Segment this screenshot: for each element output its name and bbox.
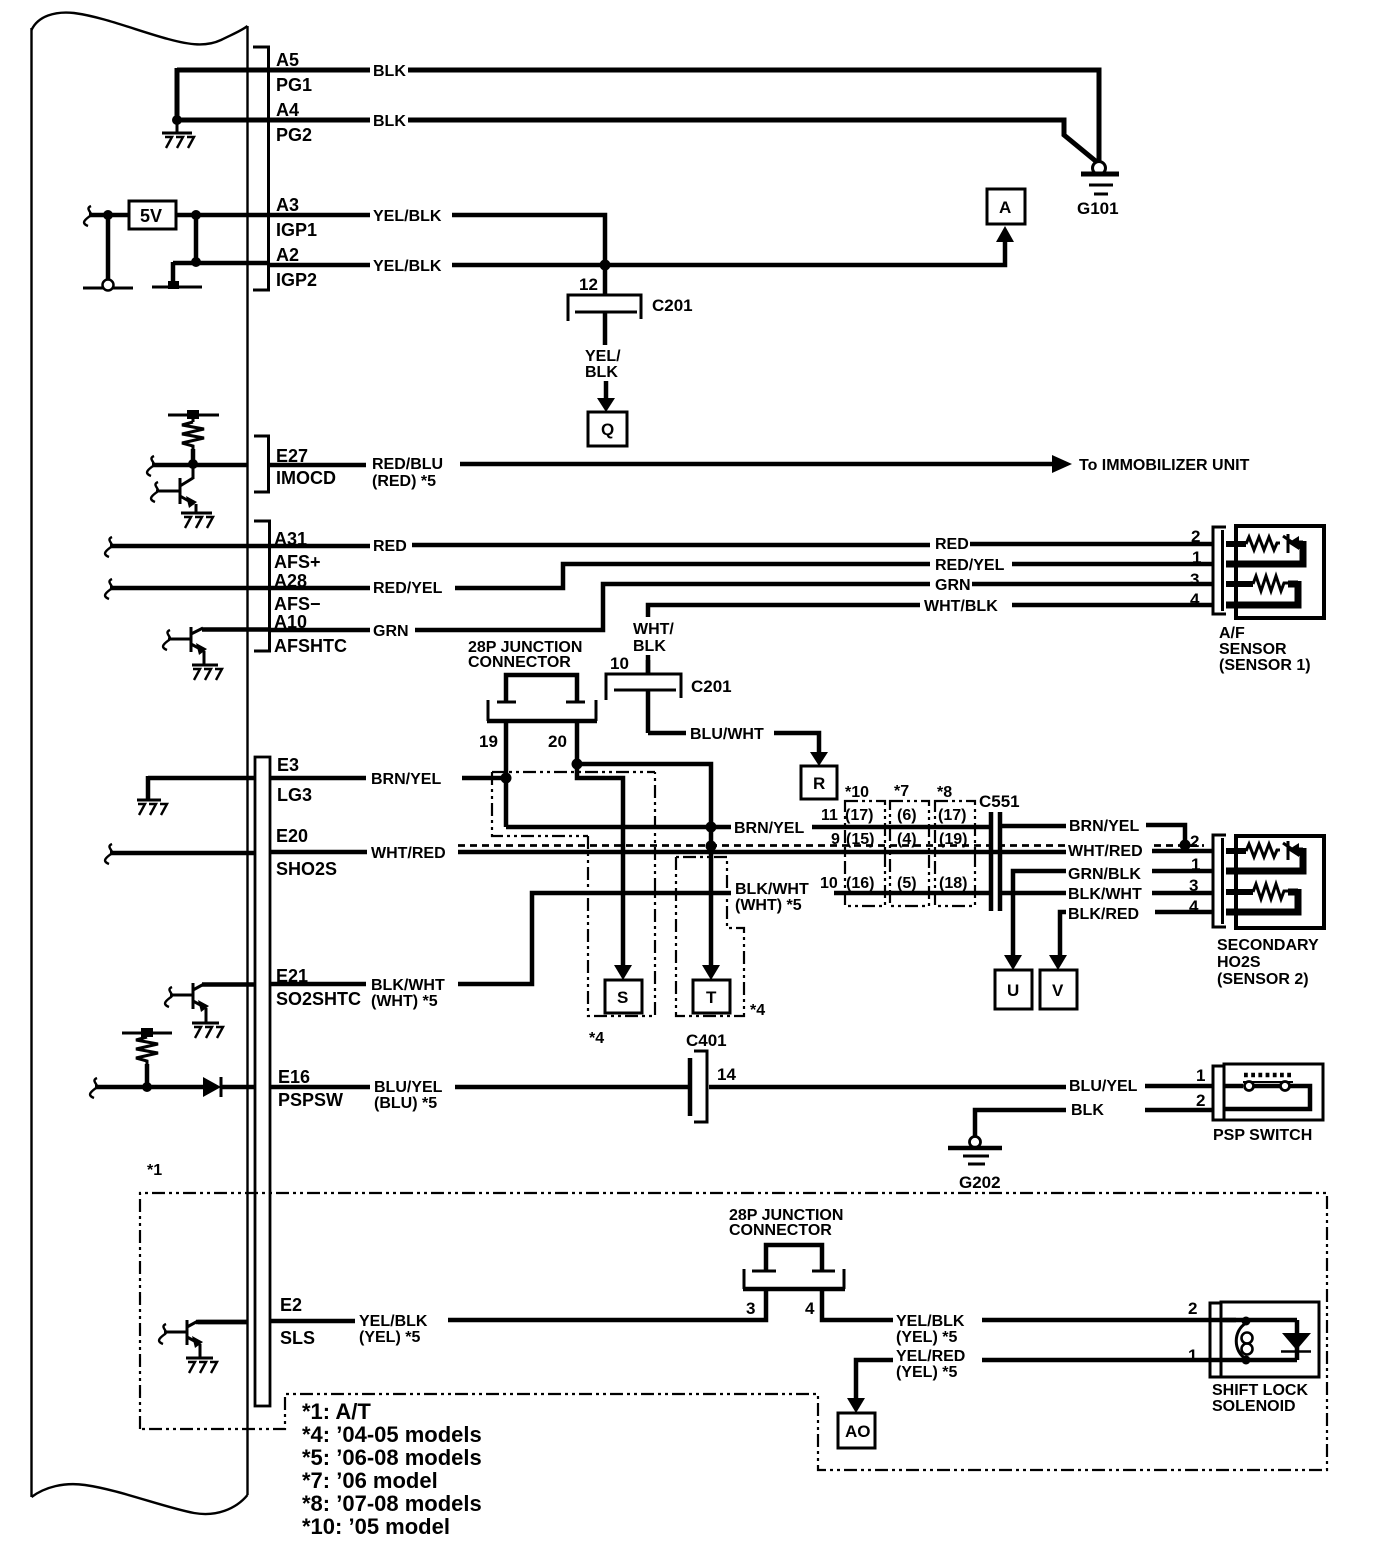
destination box U	[995, 970, 1032, 1009]
variant dash-dot box col *8	[935, 801, 975, 906]
component label SHIFT LOCK SOLENOID	[1212, 1382, 1308, 1415]
wire label YEL/BLK A2	[373, 258, 442, 275]
wire label BLK/WHT right	[1068, 886, 1142, 903]
destination box A	[987, 189, 1025, 224]
pin 10 label C201	[610, 654, 629, 673]
svg-text:LG3: LG3	[277, 785, 312, 805]
svg-text:IGP1: IGP1	[276, 220, 317, 240]
svg-text:20: 20	[548, 732, 567, 751]
svg-text:IGP2: IGP2	[276, 270, 317, 290]
ECM connector bracket A31-A10	[254, 521, 270, 651]
pin 2 label HO2S	[1190, 832, 1199, 851]
wire E2 YEL/BLK	[198, 1291, 766, 1322]
node BRN/YEL T junction	[706, 822, 717, 833]
ground G202	[948, 1137, 1002, 1193]
wire A5 BLK to G101	[268, 70, 1099, 162]
connector bracket solenoid	[1210, 1303, 1221, 1377]
svg-text:CONNECTOR: CONNECTOR	[468, 654, 571, 671]
variant pin (19) row2	[939, 831, 967, 848]
svg-text:YEL/: YEL/	[585, 348, 621, 365]
component label PSP SWITCH	[1213, 1127, 1312, 1144]
svg-text:10: 10	[610, 654, 629, 673]
HO2S sensor cell return wire	[1226, 868, 1307, 875]
wire A5 internal ground branch	[177, 68, 268, 120]
terminal label SLS	[280, 1328, 315, 1348]
wire GRN/BLK to HO2S	[1013, 871, 1213, 955]
HO2S sensor box	[1236, 836, 1324, 928]
pin 2 label A/F	[1191, 527, 1200, 546]
torn page right edge	[246, 26, 248, 1495]
connector label C401	[686, 1031, 727, 1050]
wire label BRN/YEL mid	[734, 820, 804, 837]
svg-text:GRN/BLK: GRN/BLK	[1068, 866, 1141, 883]
solenoid coil	[1223, 1317, 1297, 1365]
terminal label AFSHTC	[274, 636, 347, 656]
svg-text:*10: *10	[845, 784, 869, 801]
ground G101	[1077, 162, 1119, 219]
terminal label A2	[276, 245, 299, 265]
transistor Q1 IMOCD	[156, 464, 213, 528]
wire label GRN left	[373, 623, 409, 640]
PSP switch contacts	[1224, 1075, 1310, 1109]
destination box Q	[588, 412, 627, 446]
component label A/F SENSOR (SENSOR 1)	[1219, 625, 1311, 674]
svg-text:(19): (19)	[939, 831, 967, 848]
wire label WHT/RED E20	[371, 845, 446, 862]
HO2S heater element	[1226, 884, 1298, 909]
footnote *8 07-08 models	[302, 1491, 482, 1516]
variant pin (4) row2	[897, 831, 917, 848]
terminal label E3	[277, 755, 299, 775]
svg-text:(5): (5)	[897, 875, 917, 892]
torn page bottom edge	[32, 1484, 248, 1514]
connector C201 (A/F heater)	[606, 660, 681, 733]
wire pin20 to T drop	[577, 764, 711, 846]
wire A3 to A2 branch	[194, 215, 199, 262]
wire A4 internal	[177, 118, 268, 123]
pin 9 label	[831, 831, 840, 848]
svg-text:*1: *1	[147, 1162, 162, 1179]
variant dash-dot box A/T region	[140, 1193, 1327, 1470]
wire A4 BLK to G101	[268, 120, 1098, 163]
wire A2 internal	[173, 261, 268, 266]
A/F sensor cell return wire	[1226, 561, 1307, 568]
wire 5V input ground drop	[106, 215, 111, 284]
svg-text:9: 9	[831, 831, 840, 848]
wire A2 YEL/BLK to box A	[268, 242, 1005, 265]
pin 2 label solenoid	[1188, 1299, 1197, 1318]
svg-text:*8: ’07-08 models: *8: ’07-08 models	[302, 1491, 482, 1516]
torn page top edge	[32, 13, 248, 45]
pin 3 label junction	[746, 1299, 755, 1318]
terminal label PG2	[276, 125, 312, 145]
wire label RED/BLU	[372, 456, 443, 473]
svg-text:BLK: BLK	[585, 364, 618, 381]
wire break squiggle IMOCD row	[147, 456, 154, 476]
svg-text:(17): (17)	[938, 807, 966, 824]
A/F heater return wire	[1226, 602, 1302, 609]
wire break squiggle Q3 base	[165, 987, 172, 1007]
ECM connector bracket A5-A2	[253, 47, 269, 290]
svg-text:2: 2	[1188, 1299, 1197, 1318]
resistor R PSPSW pull-up	[122, 1028, 172, 1066]
footnote *5 06-08 models	[302, 1445, 482, 1470]
wire IMOCD pull-up drop	[191, 449, 196, 464]
variant pin (6) row1	[897, 807, 917, 824]
svg-text:C401: C401	[686, 1031, 727, 1050]
wire label BLK/WHT E21	[371, 977, 445, 994]
terminal label LG3	[277, 785, 312, 805]
note To IMMOBILIZER UNIT	[1079, 457, 1250, 474]
variant pin (16) row3	[846, 875, 874, 892]
A/F sensor cell element	[1226, 534, 1305, 561]
wire PSPSW pull-up drop	[145, 1064, 150, 1087]
wire break squiggle AFS+ row	[105, 537, 112, 557]
terminal label PG1	[276, 75, 312, 95]
svg-text:C201: C201	[652, 296, 693, 315]
wire BLK to ground	[975, 1110, 1213, 1137]
connector bracket PSP switch	[1213, 1066, 1224, 1120]
svg-text:(YEL) *5: (YEL) *5	[896, 1329, 957, 1346]
svg-text:2: 2	[1191, 527, 1200, 546]
wire label (YEL) *5 yelred	[896, 1364, 957, 1381]
torn page left edge	[30, 28, 32, 1497]
destination box AO	[838, 1413, 875, 1448]
svg-text:A3: A3	[276, 195, 299, 215]
svg-text:HO2S: HO2S	[1217, 954, 1261, 971]
svg-text:YEL/RED: YEL/RED	[896, 1348, 965, 1365]
arrow into box A	[996, 226, 1014, 242]
wire label BLU/WHT	[690, 726, 764, 743]
variant header *10	[845, 784, 869, 801]
HO2S sensor cell element	[1226, 841, 1305, 868]
svg-text:5V: 5V	[140, 206, 162, 226]
connector C401	[690, 1051, 707, 1122]
svg-text:PG2: PG2	[276, 125, 312, 145]
svg-text:BLK/WHT: BLK/WHT	[735, 881, 809, 898]
node IMOCD junction	[188, 459, 198, 469]
component label 28P JUNCTION CONNECTOR lower	[729, 1207, 843, 1239]
pin 1 label HO2S	[1191, 855, 1200, 874]
wire break squiggle PSPSW row	[90, 1078, 97, 1098]
wire label YEL/BLK E2	[359, 1313, 428, 1330]
svg-text:BLK: BLK	[633, 638, 666, 655]
svg-text:WHT/RED: WHT/RED	[1068, 843, 1143, 860]
variant pin (17)b row1	[938, 807, 966, 824]
svg-text:AFSHTC: AFSHTC	[274, 636, 347, 656]
svg-text:*10: ’05 model: *10: ’05 model	[302, 1514, 450, 1539]
arrow into box U	[1004, 955, 1022, 970]
terminal label A31	[274, 529, 307, 549]
node C201 branch junction	[600, 260, 611, 271]
svg-text:BRN/YEL: BRN/YEL	[734, 820, 804, 837]
svg-text:BRN/YEL: BRN/YEL	[1069, 818, 1139, 835]
svg-text:A4: A4	[276, 100, 299, 120]
svg-text:3: 3	[1190, 570, 1199, 589]
svg-text:S: S	[617, 988, 628, 1007]
pin 3 label HO2S	[1189, 876, 1198, 895]
svg-text:PG1: PG1	[276, 75, 312, 95]
pin 1 label A/F	[1192, 548, 1201, 567]
svg-text:BLK: BLK	[373, 113, 406, 130]
variant pin (5) row3	[897, 875, 917, 892]
wire pin20 to S drop	[577, 764, 623, 965]
svg-text:GRN: GRN	[935, 577, 971, 594]
footnote *7 06 model	[302, 1468, 438, 1493]
svg-text:A5: A5	[276, 50, 299, 70]
pin 10 label	[820, 875, 838, 892]
variant dash-dot box col *10	[845, 801, 885, 906]
pin 11 label	[821, 807, 838, 824]
svg-text:R: R	[813, 774, 825, 793]
terminal label E16	[278, 1067, 310, 1087]
terminal label IGP1	[276, 220, 317, 240]
wire label (WHT) *5 mid	[735, 897, 802, 914]
svg-text:(17): (17)	[845, 807, 873, 824]
wire AFS- internal	[110, 586, 268, 591]
wire AFS+ RED	[269, 544, 1213, 546]
wire label (RED) *5	[372, 473, 436, 490]
connector bracket HO2S	[1213, 835, 1226, 927]
svg-text:WHT/: WHT/	[633, 621, 674, 638]
svg-text:1: 1	[1188, 1346, 1197, 1365]
connector label C201 second	[691, 677, 732, 696]
svg-text:2: 2	[1196, 1091, 1205, 1110]
svg-text:WHT/RED: WHT/RED	[371, 845, 446, 862]
svg-text:A2: A2	[276, 245, 299, 265]
terminal label E21	[276, 966, 308, 986]
svg-text:(YEL) *5: (YEL) *5	[359, 1329, 420, 1346]
destination box T	[693, 980, 730, 1013]
variant dash-dot path E3 upper	[492, 772, 655, 836]
wire label BLK/RED	[1068, 906, 1139, 923]
svg-text:1: 1	[1196, 1066, 1205, 1085]
svg-text:BLK: BLK	[1071, 1102, 1104, 1119]
node A3 branch junction	[191, 210, 201, 220]
wire label GRN right	[935, 577, 971, 594]
svg-text:(BLU) *5: (BLU) *5	[374, 1095, 437, 1112]
terminal label E27	[276, 446, 308, 466]
svg-text:(4): (4)	[897, 831, 917, 848]
svg-text:RED: RED	[935, 536, 969, 553]
svg-text:12: 12	[579, 275, 598, 294]
wire IMOCD internal	[152, 463, 247, 468]
wire A3 YEL/BLK	[268, 215, 605, 265]
connector label C551	[979, 792, 1020, 811]
ground solid below A2	[152, 262, 202, 289]
terminal label E2	[280, 1295, 302, 1315]
HO2S heater return wire	[1226, 909, 1302, 916]
svg-text:(16): (16)	[846, 875, 874, 892]
wire label RED left	[373, 538, 407, 555]
variant pin (18) row3	[939, 875, 967, 892]
wire label BRN/YEL E3	[371, 771, 441, 788]
pin 1 label PSP	[1196, 1066, 1205, 1085]
wire BLK/WHT to C551	[834, 891, 989, 896]
svg-text:RED/YEL: RED/YEL	[935, 557, 1005, 574]
pin 12 label C201	[579, 275, 598, 294]
pin 19 label	[479, 732, 498, 751]
variant label *1	[147, 1162, 162, 1179]
wire WHT/RED to HO2S	[1152, 849, 1213, 854]
wire BLU/WHT to box R	[648, 733, 819, 752]
arrow into box Q	[597, 381, 615, 412]
wire label GRN/BLK	[1068, 866, 1141, 883]
wire AFS WHT/BLK	[648, 605, 1213, 674]
svg-text:SLS: SLS	[280, 1328, 315, 1348]
wire label WHT/BLK	[924, 598, 998, 615]
wire label BLK A4	[373, 113, 406, 130]
svg-text:PSPSW: PSPSW	[278, 1090, 343, 1110]
wire T drop lower	[709, 846, 714, 965]
svg-text:(WHT) *5: (WHT) *5	[371, 993, 438, 1010]
solenoid diode	[1281, 1320, 1311, 1360]
svg-text:BLU/YEL: BLU/YEL	[1069, 1078, 1138, 1095]
wire pin 20 drop	[575, 723, 580, 764]
wire BRN/YEL to HO2S	[1000, 825, 1185, 843]
wire label (BLU) *5	[374, 1095, 437, 1112]
svg-text:To IMMOBILIZER UNIT: To IMMOBILIZER UNIT	[1079, 457, 1250, 474]
svg-text:RED/YEL: RED/YEL	[373, 580, 443, 597]
wire label BLU/YEL right	[1069, 1078, 1138, 1095]
footnote *1 A/T	[302, 1399, 371, 1424]
variant pin (17) row1	[845, 807, 873, 824]
svg-text:A: A	[999, 198, 1011, 217]
arrow to immobilizer unit	[1052, 455, 1072, 473]
ground body below 5V input	[83, 280, 133, 291]
node A4 junction	[172, 115, 182, 125]
svg-text:(SENSOR 1): (SENSOR 1)	[1219, 657, 1311, 674]
svg-text:YEL/BLK: YEL/BLK	[896, 1313, 965, 1330]
destination box R	[801, 766, 837, 799]
connector C201 (IGP2)	[568, 265, 641, 345]
wire BLK/WHT to HO2S	[1000, 891, 1213, 896]
arrow into box AO	[847, 1398, 865, 1413]
svg-text:IMOCD: IMOCD	[276, 468, 336, 488]
terminal label PSPSW	[278, 1090, 343, 1110]
svg-text:*7: *7	[894, 783, 909, 800]
svg-text:*4: ’04-05 models: *4: ’04-05 models	[302, 1422, 482, 1447]
wire E3 BRN/YEL	[270, 776, 506, 781]
arrow into box V	[1049, 955, 1067, 970]
wire label (WHT) *5 E21	[371, 993, 438, 1010]
svg-text:(WHT) *5: (WHT) *5	[735, 897, 802, 914]
svg-text:*7: ’06 model: *7: ’06 model	[302, 1468, 438, 1493]
svg-text:CONNECTOR: CONNECTOR	[729, 1222, 832, 1239]
svg-text:V: V	[1052, 981, 1064, 1000]
wire label BLU/YEL left	[374, 1079, 443, 1096]
arrow into box R	[810, 752, 828, 766]
wire break squiggle Q2 base	[163, 630, 170, 650]
svg-text:YEL/BLK: YEL/BLK	[373, 258, 442, 275]
wire label YEL/BLK vertical	[585, 348, 621, 381]
pin 4 label HO2S	[1189, 897, 1199, 916]
svg-text:BRN/YEL: BRN/YEL	[371, 771, 441, 788]
svg-text:SENSOR: SENSOR	[1219, 641, 1287, 658]
svg-text:*5: ’06-08 models: *5: ’06-08 models	[302, 1445, 482, 1470]
diode D1 PSPSW	[203, 1077, 254, 1097]
pin 20 label	[548, 732, 567, 751]
wire break squiggle SHO2S row	[105, 844, 112, 864]
connector label C201	[652, 296, 693, 315]
footnote *10 05 model	[302, 1514, 450, 1539]
wire label BLK A5	[373, 63, 406, 80]
node E3 junction	[501, 773, 512, 784]
svg-text:YEL/BLK: YEL/BLK	[373, 208, 442, 225]
svg-text:E3: E3	[277, 755, 299, 775]
terminal label E20	[276, 826, 308, 846]
shift lock solenoid box	[1221, 1302, 1319, 1377]
wire WHT/RED dashed variant	[458, 844, 1204, 847]
svg-text:*1: A/T: *1: A/T	[302, 1399, 371, 1424]
svg-text:BLK: BLK	[373, 63, 406, 80]
component label SECONDARY HO2S (SENSOR 2)	[1217, 937, 1319, 988]
svg-text:4: 4	[1190, 590, 1200, 609]
wire YEL/BLK to solenoid	[822, 1291, 1236, 1320]
transistor Q2 AFSHTC	[168, 627, 268, 680]
pin 4 label junction	[805, 1299, 815, 1318]
svg-text:BLU/YEL: BLU/YEL	[374, 1079, 443, 1096]
node A2 branch junction	[191, 257, 201, 267]
wire label WHT/RED right	[1068, 843, 1143, 860]
component label 28P JUNCTION CONNECTOR	[468, 639, 582, 671]
terminal label IGP2	[276, 270, 317, 290]
svg-text:4: 4	[1189, 897, 1199, 916]
terminal label SHO2S	[276, 859, 337, 879]
svg-text:1: 1	[1191, 855, 1200, 874]
svg-text:SECONDARY: SECONDARY	[1217, 937, 1319, 954]
pin 2 label PSP	[1196, 1091, 1205, 1110]
svg-text:BLK/RED: BLK/RED	[1068, 906, 1139, 923]
transistor Q3 SO2SHTC	[170, 983, 254, 1038]
terminal label AFS+	[274, 552, 321, 572]
variant pin (15) row2	[846, 831, 874, 848]
variant label *4 under S	[589, 1030, 604, 1047]
node 5V input junction	[103, 210, 113, 220]
svg-text:BLK/WHT: BLK/WHT	[371, 977, 445, 994]
regulator 5V box	[129, 201, 176, 229]
wire A3 from 5V box	[176, 213, 268, 218]
node BRN/YEL dashed junction	[1180, 840, 1191, 851]
destination box S	[605, 980, 642, 1013]
wire BLU/YEL to PSP switch	[709, 1086, 1213, 1087]
wire AFS+ internal	[110, 544, 268, 549]
svg-text:11: 11	[821, 807, 838, 824]
terminal label IMOCD	[276, 468, 336, 488]
wire label BLK PSP	[1071, 1102, 1104, 1119]
svg-text:G202: G202	[959, 1173, 1001, 1192]
svg-text:GRN: GRN	[373, 623, 409, 640]
ground chassis below A4	[162, 120, 194, 148]
svg-text:E16: E16	[278, 1067, 310, 1087]
footnote *4 04-05 models	[302, 1422, 482, 1447]
wire IMOCD RED/BLU	[268, 464, 1052, 465]
svg-text:*4: *4	[750, 1002, 765, 1019]
svg-text:G101: G101	[1077, 199, 1119, 218]
wire break squiggle AFS- row	[105, 579, 112, 599]
wire label BLK/WHT mid	[735, 881, 809, 898]
node PSPSW junction	[142, 1082, 152, 1092]
connector C551 bar	[991, 812, 1000, 911]
svg-text:10: 10	[820, 875, 838, 892]
svg-text:C551: C551	[979, 792, 1020, 811]
wire label YEL/BLK right	[896, 1313, 965, 1330]
wire label RED/YEL left	[373, 580, 443, 597]
svg-text:(RED) *5: (RED) *5	[372, 473, 436, 490]
wire break squiggle 5V input	[84, 206, 91, 226]
svg-text:(18): (18)	[939, 875, 967, 892]
svg-text:2: 2	[1190, 832, 1199, 851]
